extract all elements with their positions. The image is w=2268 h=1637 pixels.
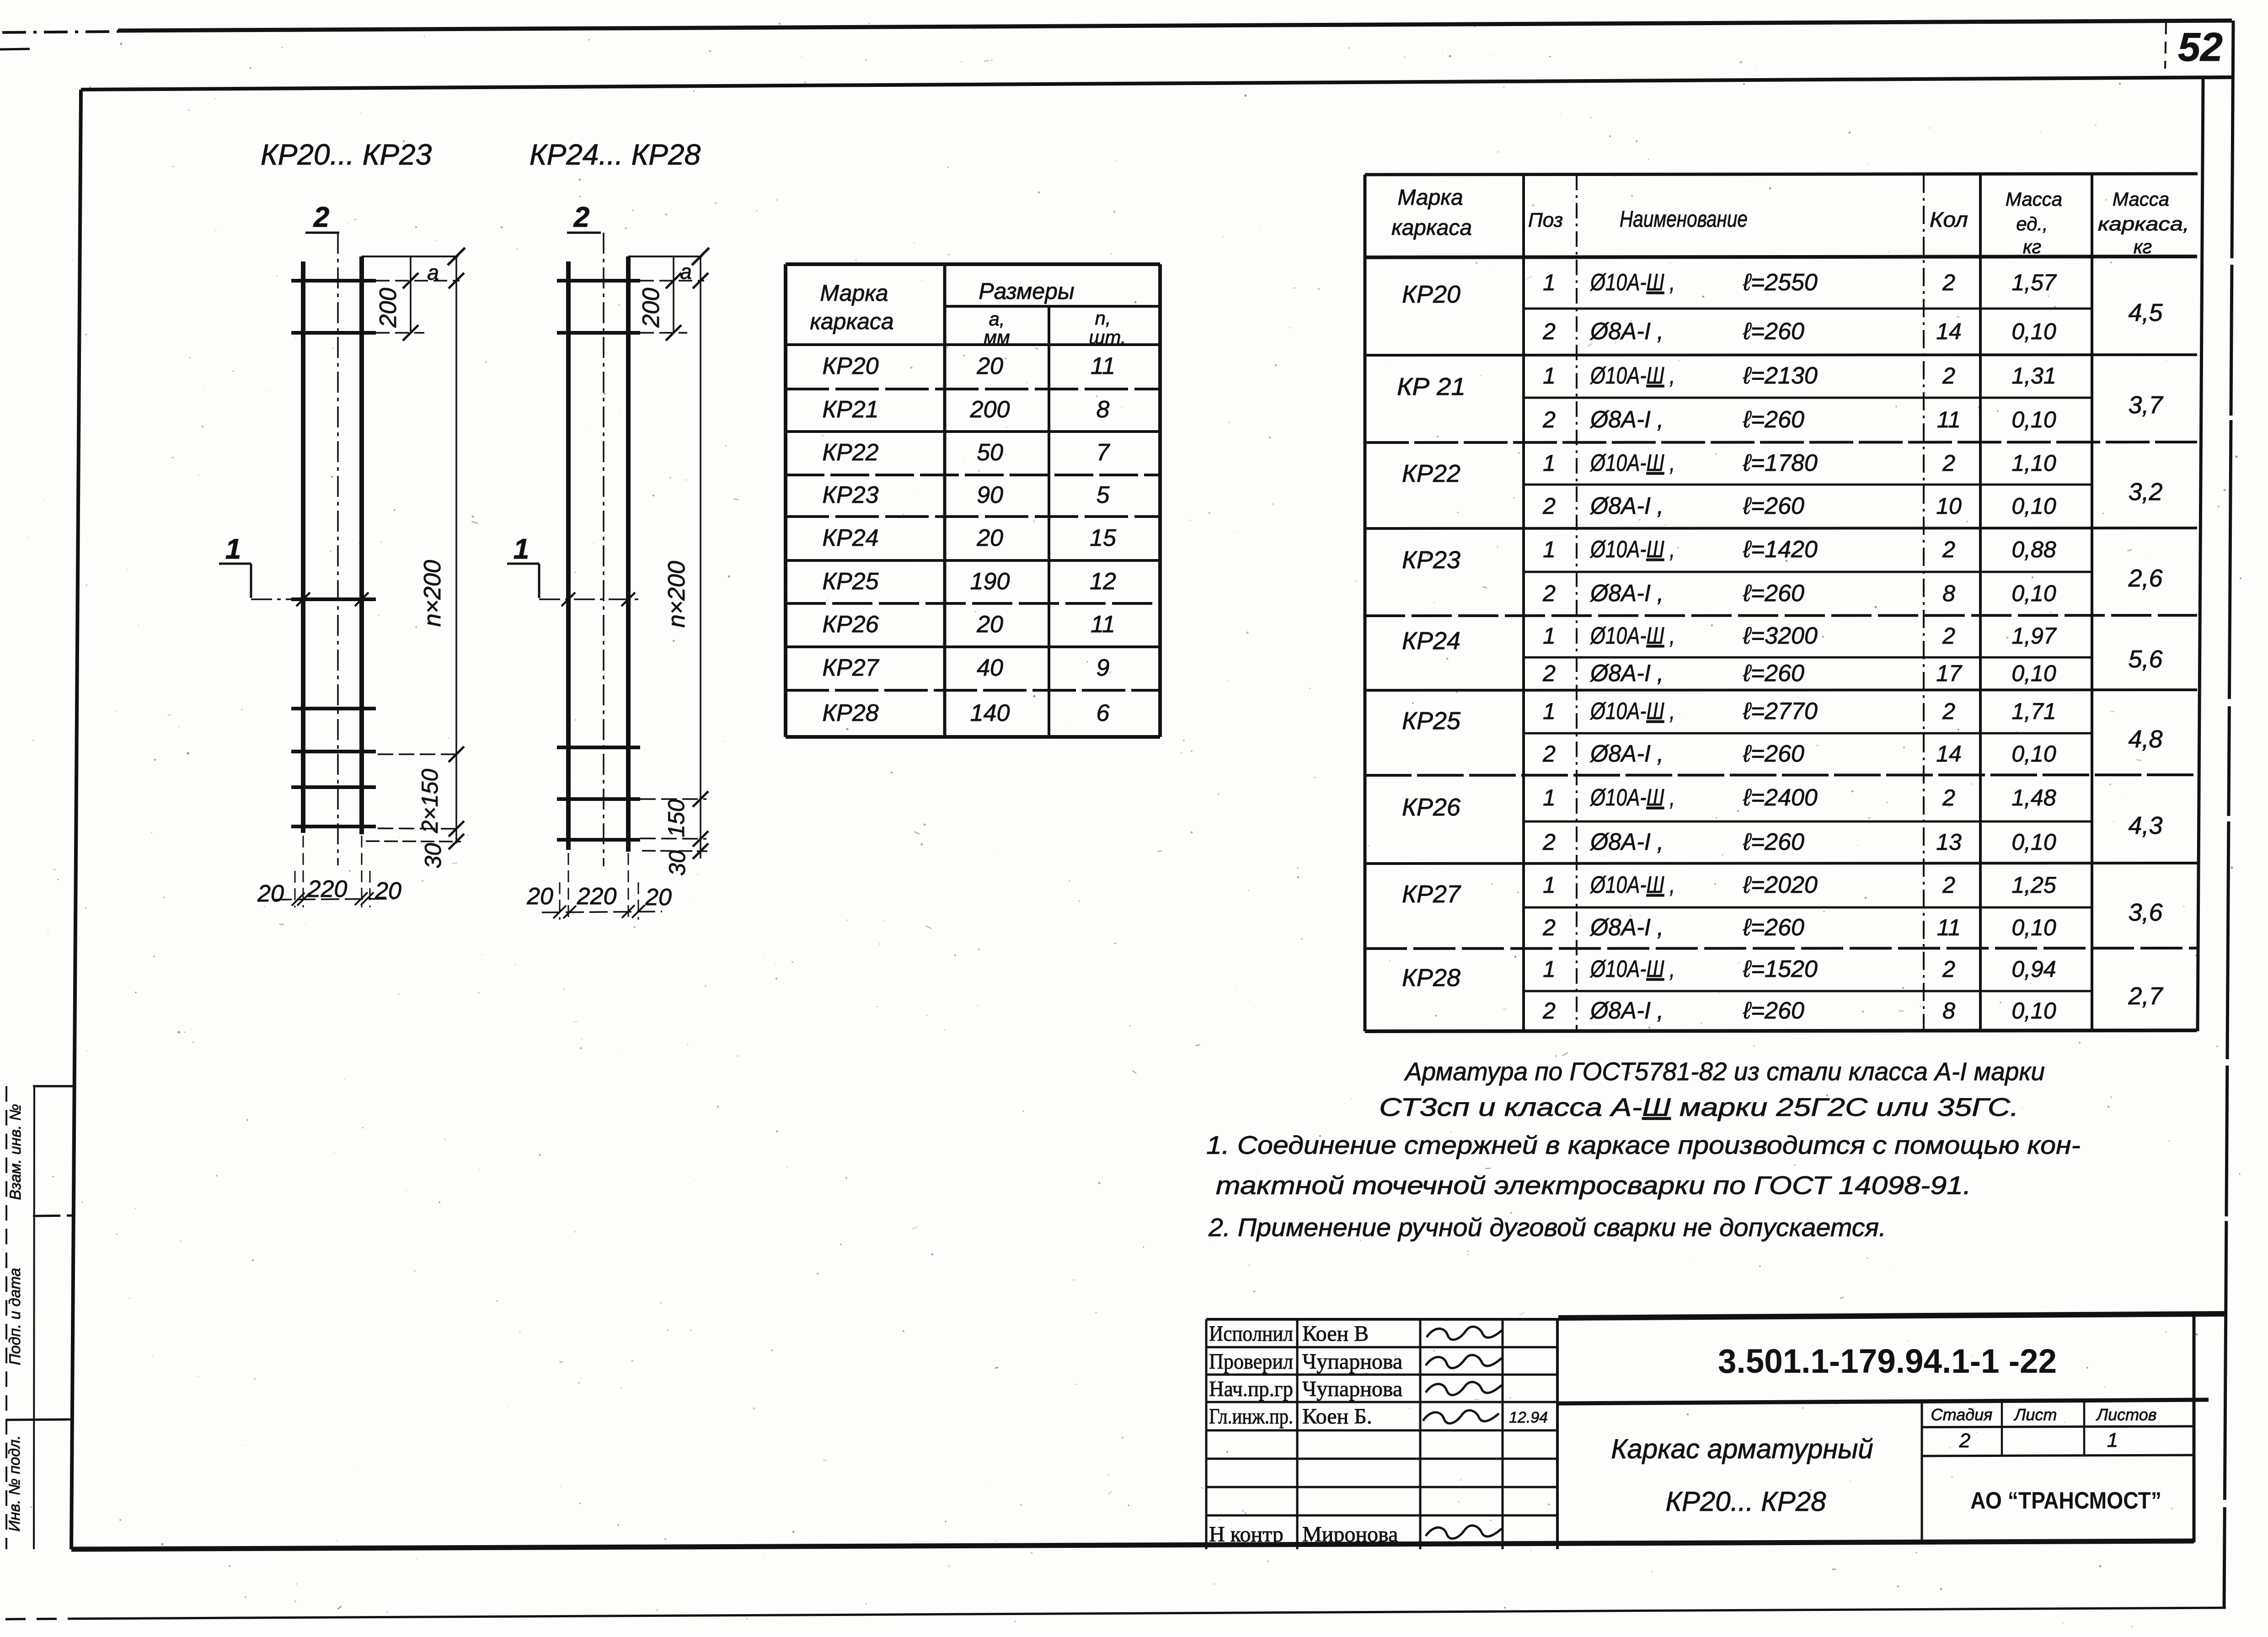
- svg-text:Ø8А-I ,: Ø8А-I ,: [1589, 914, 1664, 941]
- svg-text:КР20: КР20: [1402, 281, 1460, 308]
- svg-text:2: 2: [1942, 623, 1955, 649]
- bottom dimension 20/220/20 (left diagram): [303, 836, 304, 907]
- svg-text:2: 2: [1942, 956, 1955, 982]
- svg-text:0,10: 0,10: [2011, 581, 2056, 606]
- svg-text:n,: n,: [1095, 307, 1111, 329]
- svg-text:20: 20: [374, 878, 401, 904]
- svg-text:ℓ=2020: ℓ=2020: [1743, 872, 1818, 898]
- svg-text:0,10: 0,10: [2011, 829, 2056, 855]
- svg-text:20: 20: [976, 353, 1003, 379]
- svg-text:52: 52: [2178, 24, 2223, 69]
- svg-text:Ø8А-I ,: Ø8А-I ,: [1589, 829, 1664, 855]
- svg-text:КР28: КР28: [1402, 964, 1460, 992]
- svg-text:каркаса: каркаса: [1391, 216, 1472, 240]
- title block: [1557, 1314, 2225, 1549]
- svg-text:1: 1: [2107, 1429, 2118, 1451]
- dimension 150 (right diagram): [640, 798, 706, 800]
- svg-text:ℓ=260: ℓ=260: [1743, 318, 1804, 345]
- svg-text:КР23: КР23: [822, 482, 878, 508]
- svg-text:Ø8А-I ,: Ø8А-I ,: [1589, 997, 1664, 1024]
- svg-text:Каркас арматурный: Каркас арматурный: [1611, 1434, 1873, 1464]
- svg-text:Чупарнова: Чупарнова: [1302, 1377, 1402, 1401]
- cross rungs (right diagram): [557, 279, 640, 283]
- svg-text:4,3: 4,3: [2128, 812, 2162, 839]
- sizes table (Марка каркаса / Размеры): [786, 264, 1160, 737]
- svg-text:2: 2: [1942, 363, 1955, 389]
- svg-text:220: 220: [577, 883, 617, 910]
- svg-text:20: 20: [976, 525, 1003, 551]
- svg-text:40: 40: [977, 655, 1003, 681]
- svg-text:3,6: 3,6: [2128, 899, 2163, 926]
- svg-text:Поз: Поз: [1528, 209, 1563, 231]
- svg-text:3,7: 3,7: [2128, 391, 2163, 419]
- svg-text:ℓ=260: ℓ=260: [1743, 406, 1804, 433]
- svg-text:Ø10А-Ш ,: Ø10А-Ш ,: [1589, 269, 1675, 296]
- svg-text:2,7: 2,7: [2128, 982, 2163, 1010]
- left vertical bar (right diagram): [566, 261, 571, 850]
- svg-text:8: 8: [1942, 581, 1955, 606]
- svg-text:200: 200: [970, 396, 1010, 423]
- svg-text:КР23: КР23: [1402, 546, 1460, 574]
- svg-text:17: 17: [1936, 661, 1963, 686]
- svg-text:Ø10А-Ш ,: Ø10А-Ш ,: [1589, 536, 1675, 563]
- svg-text:1,97: 1,97: [2011, 623, 2057, 649]
- svg-text:20: 20: [976, 611, 1003, 638]
- cage center line (right diagram): [603, 233, 604, 866]
- svg-text:150: 150: [663, 799, 689, 837]
- svg-text:0,94: 0,94: [2011, 956, 2056, 982]
- svg-text:11: 11: [1937, 407, 1961, 432]
- svg-text:Исполнил: Исполнил: [1209, 1322, 1293, 1346]
- svg-text:ℓ=2770: ℓ=2770: [1743, 698, 1818, 725]
- dimension a (left diagram): [410, 256, 412, 281]
- svg-text:11: 11: [1091, 353, 1115, 379]
- section line 1-1 (right diagram): [539, 598, 640, 600]
- svg-text:1,25: 1,25: [2011, 872, 2056, 898]
- svg-text:ℓ=2550: ℓ=2550: [1743, 269, 1818, 296]
- svg-text:ℓ=260: ℓ=260: [1743, 493, 1804, 519]
- svg-text:КР22: КР22: [1402, 460, 1460, 487]
- dimension 30 (right diagram): [642, 851, 707, 851]
- svg-text:Ø10А-Ш ,: Ø10А-Ш ,: [1589, 450, 1675, 476]
- svg-text:Ø8А-I ,: Ø8А-I ,: [1589, 660, 1664, 687]
- svg-text:КР21: КР21: [822, 396, 878, 423]
- svg-text:0,10: 0,10: [2011, 493, 2056, 519]
- svg-text:2×150: 2×150: [417, 769, 443, 834]
- svg-text:190: 190: [970, 568, 1010, 595]
- right vertical bar (right diagram): [626, 256, 631, 852]
- svg-text:2. Применение ручной дуговой с: 2. Применение ручной дуговой сварки не д…: [1208, 1213, 1886, 1242]
- svg-text:Марка: Марка: [820, 280, 888, 306]
- svg-text:Подп. и дата: Подп. и дата: [6, 1268, 24, 1365]
- svg-text:5: 5: [1097, 482, 1110, 508]
- svg-text:Ø10А-Ш ,: Ø10А-Ш ,: [1589, 363, 1675, 389]
- svg-text:2: 2: [1542, 661, 1556, 686]
- svg-text:кг: кг: [2134, 236, 2152, 257]
- svg-text:0,10: 0,10: [2011, 407, 2056, 432]
- svg-text:ℓ=260: ℓ=260: [1743, 829, 1804, 855]
- svg-text:КР20: КР20: [822, 353, 878, 379]
- svg-text:1: 1: [1543, 623, 1556, 649]
- svg-text:2: 2: [1942, 872, 1955, 898]
- svg-text:ℓ=2400: ℓ=2400: [1743, 784, 1818, 811]
- svg-text:Ø8А-I ,: Ø8А-I ,: [1589, 580, 1664, 607]
- svg-text:11: 11: [1091, 611, 1115, 638]
- svg-text:Ø10А-Ш ,: Ø10А-Ш ,: [1589, 956, 1675, 982]
- svg-text:9: 9: [1097, 655, 1110, 681]
- svg-text:1: 1: [1543, 956, 1556, 982]
- dimension line n x 200 (right diagram): [700, 256, 701, 858]
- drawing frame bottom border: [71, 1541, 2194, 1549]
- svg-text:0,10: 0,10: [2011, 741, 2056, 767]
- svg-text:КР26: КР26: [1402, 794, 1461, 821]
- svg-text:ℓ=260: ℓ=260: [1743, 660, 1804, 687]
- svg-text:0,10: 0,10: [2011, 998, 2056, 1024]
- section line 1-1 (left diagram): [251, 598, 374, 600]
- notes text: [1206, 1057, 2081, 1242]
- svg-text:тактной точечной электросварки: тактной точечной электросварки по ГОСТ 1…: [1216, 1171, 1971, 1200]
- svg-text:200: 200: [375, 288, 401, 328]
- svg-text:200: 200: [638, 288, 664, 328]
- svg-text:Лист: Лист: [2014, 1405, 2057, 1424]
- svg-text:а: а: [680, 260, 692, 283]
- svg-text:140: 140: [970, 700, 1010, 726]
- svg-text:Гл.инж.пр.: Гл.инж.пр.: [1209, 1404, 1293, 1429]
- svg-text:2: 2: [1542, 319, 1556, 344]
- svg-text:20: 20: [645, 884, 672, 911]
- svg-text:Проверил: Проверил: [1209, 1349, 1293, 1374]
- top extension line to dimension (left diagram): [362, 256, 458, 257]
- svg-text:30: 30: [664, 850, 690, 876]
- svg-text:2: 2: [1542, 998, 1556, 1024]
- svg-text:Взам. инв. №: Взам. инв. №: [7, 1104, 24, 1200]
- svg-text:Масса: Масса: [2113, 188, 2169, 210]
- svg-text:2: 2: [313, 202, 329, 233]
- svg-text:6: 6: [1097, 700, 1110, 726]
- signature table: [1206, 1319, 1557, 1549]
- svg-text:2: 2: [1542, 829, 1556, 855]
- svg-text:1: 1: [1543, 699, 1556, 724]
- svg-text:0,10: 0,10: [2011, 661, 2056, 686]
- svg-text:2: 2: [1942, 537, 1955, 562]
- svg-text:КР27: КР27: [822, 655, 879, 681]
- svg-text:Стадия: Стадия: [1931, 1405, 1993, 1424]
- svg-text:шт.: шт.: [1089, 326, 1126, 348]
- svg-text:220: 220: [307, 876, 348, 902]
- specification table right border extending to frame: [2198, 78, 2203, 1031]
- svg-text:5,6: 5,6: [2128, 645, 2163, 673]
- svg-text:Нач.пр.гр: Нач.пр.гр: [1209, 1377, 1293, 1401]
- bottom dimension 20/220/20 (right diagram): [568, 853, 569, 920]
- svg-text:0,10: 0,10: [2011, 915, 2056, 940]
- svg-text:Ø8А-I ,: Ø8А-I ,: [1589, 741, 1664, 767]
- svg-text:2,6: 2,6: [2128, 565, 2163, 592]
- svg-text:1: 1: [1543, 450, 1556, 476]
- svg-text:2: 2: [1542, 493, 1556, 519]
- scan edge right line: [2224, 21, 2233, 1607]
- svg-text:Чупарнова: Чупарнова: [1302, 1349, 1402, 1374]
- svg-text:11: 11: [1937, 915, 1961, 940]
- svg-text:2: 2: [1942, 699, 1955, 724]
- svg-text:Ø8А-I ,: Ø8А-I ,: [1589, 493, 1664, 519]
- svg-text:14: 14: [1936, 741, 1962, 767]
- svg-text:1,31: 1,31: [2011, 363, 2056, 389]
- svg-text:Размеры: Размеры: [979, 278, 1074, 304]
- svg-text:каркаса,: каркаса,: [2098, 213, 2189, 235]
- svg-text:КР24: КР24: [1402, 627, 1460, 655]
- svg-text:КР24: КР24: [822, 525, 878, 551]
- svg-text:Листов: Листов: [2096, 1405, 2156, 1424]
- scan edge top line: [0, 49, 30, 49]
- svg-text:4,8: 4,8: [2128, 725, 2162, 753]
- specification table: [1365, 78, 2203, 1031]
- svg-text:кг: кг: [2023, 236, 2042, 257]
- left margin stamp strip: [6, 1086, 75, 1549]
- svg-text:Кол: Кол: [1930, 208, 1968, 231]
- dimension a (right diagram): [673, 256, 674, 281]
- right vertical bar (left diagram): [359, 256, 364, 834]
- svg-text:Ø8А-I ,: Ø8А-I ,: [1589, 406, 1664, 433]
- svg-text:Коен Б.: Коен Б.: [1302, 1404, 1372, 1429]
- svg-text:2: 2: [1542, 581, 1556, 606]
- svg-text:ℓ=260: ℓ=260: [1743, 997, 1804, 1024]
- svg-text:2: 2: [573, 202, 589, 233]
- svg-text:1,71: 1,71: [2011, 699, 2056, 724]
- svg-text:2: 2: [1959, 1429, 1970, 1452]
- diagram КР24...КР28: [507, 138, 709, 920]
- dimension 30 (left diagram): [366, 841, 461, 842]
- svg-text:50: 50: [977, 439, 1003, 466]
- svg-text:каркаса: каркаса: [810, 309, 893, 334]
- cage center line (left diagram): [337, 233, 339, 865]
- top extension line to dimension (right diagram): [628, 256, 702, 257]
- dimension 2x150 (left diagram): [378, 753, 460, 755]
- svg-text:СТ3сп и класса А-Ш марки 25: СТ3сп и класса А-Ш марки 25Г2С или 35ГС.: [1379, 1093, 2019, 1121]
- svg-text:ℓ=1780: ℓ=1780: [1743, 450, 1818, 476]
- svg-text:1,57: 1,57: [2011, 270, 2057, 295]
- svg-text:1: 1: [1543, 270, 1556, 295]
- svg-text:ℓ=1520: ℓ=1520: [1743, 956, 1818, 982]
- svg-text:90: 90: [977, 482, 1003, 508]
- svg-text:n×200: n×200: [419, 560, 446, 627]
- svg-text:n×200: n×200: [663, 561, 690, 628]
- svg-text:2: 2: [1942, 450, 1955, 476]
- cross rungs (left diagram): [291, 279, 376, 283]
- svg-text:1: 1: [1543, 872, 1556, 898]
- svg-text:2: 2: [1942, 270, 1955, 295]
- dimension 200 (right diagram): [673, 281, 674, 333]
- svg-text:КР28: КР28: [822, 700, 878, 726]
- svg-text:КР26: КР26: [822, 611, 878, 638]
- svg-text:КР25: КР25: [1402, 707, 1461, 735]
- svg-text:0,10: 0,10: [2011, 319, 2056, 344]
- drawing frame top border: [81, 77, 2232, 90]
- svg-text:КР 21: КР 21: [1397, 373, 1466, 400]
- svg-text:Масса: Масса: [2006, 188, 2062, 210]
- svg-text:2: 2: [1542, 915, 1556, 940]
- svg-text:1,48: 1,48: [2011, 785, 2056, 811]
- svg-text:Ø10А-Ш ,: Ø10А-Ш ,: [1589, 698, 1675, 725]
- svg-text:АО “ТРАНСМОСТ”: АО “ТРАНСМОСТ”: [1970, 1488, 2161, 1514]
- svg-text:1: 1: [225, 533, 241, 565]
- svg-text:КР22: КР22: [822, 439, 878, 466]
- extension dashes (right diagram): [640, 280, 704, 282]
- svg-text:8: 8: [1942, 998, 1955, 1024]
- svg-text:10: 10: [1936, 493, 1962, 519]
- scan edge bottom line: [5, 1619, 69, 1619]
- svg-text:Ø10А-Ш ,: Ø10А-Ш ,: [1589, 784, 1675, 811]
- svg-text:12.94: 12.94: [1509, 1409, 1548, 1426]
- svg-text:Н контр: Н контр: [1209, 1522, 1284, 1546]
- svg-text:ℓ=260: ℓ=260: [1743, 914, 1804, 941]
- svg-text:3.501.1-179.94.1-1 -22: 3.501.1-179.94.1-1 -22: [1718, 1342, 2057, 1380]
- svg-text:1: 1: [1543, 537, 1556, 562]
- svg-text:1: 1: [514, 533, 529, 565]
- svg-text:Ø8А-I ,: Ø8А-I ,: [1589, 318, 1664, 345]
- svg-text:Инв. № подл.: Инв. № подл.: [6, 1435, 23, 1532]
- diagram КР20...КР23: [219, 138, 465, 907]
- svg-text:Арматура по ГОСТ5781-82 из ст: Арматура по ГОСТ5781-82 из стали класса …: [1404, 1057, 2045, 1086]
- svg-text:14: 14: [1936, 319, 1962, 344]
- svg-text:Миронова: Миронова: [1302, 1522, 1398, 1546]
- svg-text:15: 15: [1090, 525, 1117, 551]
- svg-text:2: 2: [1542, 407, 1556, 432]
- svg-text:30: 30: [420, 843, 446, 869]
- signatures (handwritten squiggles): [1427, 1327, 1503, 1340]
- svg-text:7: 7: [1097, 439, 1111, 466]
- svg-text:1. Соединение стержней в карка: 1. Соединение стержней в каркасе произво…: [1206, 1130, 2081, 1159]
- svg-text:3,2: 3,2: [2128, 478, 2162, 506]
- svg-text:КР25: КР25: [822, 568, 879, 595]
- drawing frame left border: [71, 90, 81, 1549]
- svg-text:ℓ=3200: ℓ=3200: [1743, 623, 1818, 649]
- dimension 200 (left diagram): [410, 281, 412, 333]
- svg-text:Ø10А-Ш ,: Ø10А-Ш ,: [1589, 623, 1675, 649]
- specification table sub-row dividers: [1524, 308, 2092, 310]
- svg-text:ℓ=260: ℓ=260: [1743, 580, 1804, 607]
- svg-text:КР27: КР27: [1402, 880, 1461, 908]
- extension dashes (left diagram): [376, 280, 460, 282]
- svg-text:8: 8: [1097, 396, 1110, 423]
- svg-text:Марка: Марка: [1397, 186, 1463, 210]
- svg-text:ед.,: ед.,: [2016, 213, 2048, 235]
- svg-text:1,10: 1,10: [2011, 450, 2056, 476]
- svg-text:Коен В: Коен В: [1302, 1322, 1369, 1346]
- svg-text:ℓ=2130: ℓ=2130: [1743, 363, 1818, 389]
- svg-text:4,5: 4,5: [2128, 299, 2163, 326]
- left vertical bar (left diagram): [301, 261, 305, 833]
- svg-text:Ø10А-Ш ,: Ø10А-Ш ,: [1589, 872, 1675, 898]
- svg-text:0,88: 0,88: [2011, 537, 2056, 562]
- svg-text:20: 20: [257, 880, 284, 907]
- svg-text:КР20... КР28: КР20... КР28: [1666, 1486, 1827, 1517]
- svg-text:ℓ=1420: ℓ=1420: [1743, 536, 1818, 563]
- svg-text:ℓ=260: ℓ=260: [1743, 741, 1804, 767]
- svg-text:20: 20: [526, 883, 553, 910]
- svg-text:12: 12: [1090, 568, 1116, 595]
- dimension line n x 200 (left diagram): [455, 256, 457, 843]
- svg-text:2: 2: [1542, 741, 1556, 767]
- svg-text:1: 1: [1543, 785, 1556, 811]
- svg-text:мм: мм: [984, 326, 1010, 348]
- page number box dashed divider: [2165, 22, 2166, 69]
- svg-text:КР20... КР23: КР20... КР23: [261, 138, 432, 171]
- svg-text:Наименование: Наименование: [1620, 206, 1748, 232]
- svg-text:КР24... КР28: КР24... КР28: [530, 138, 701, 171]
- svg-text:1: 1: [1543, 363, 1556, 389]
- svg-text:13: 13: [1936, 829, 1962, 855]
